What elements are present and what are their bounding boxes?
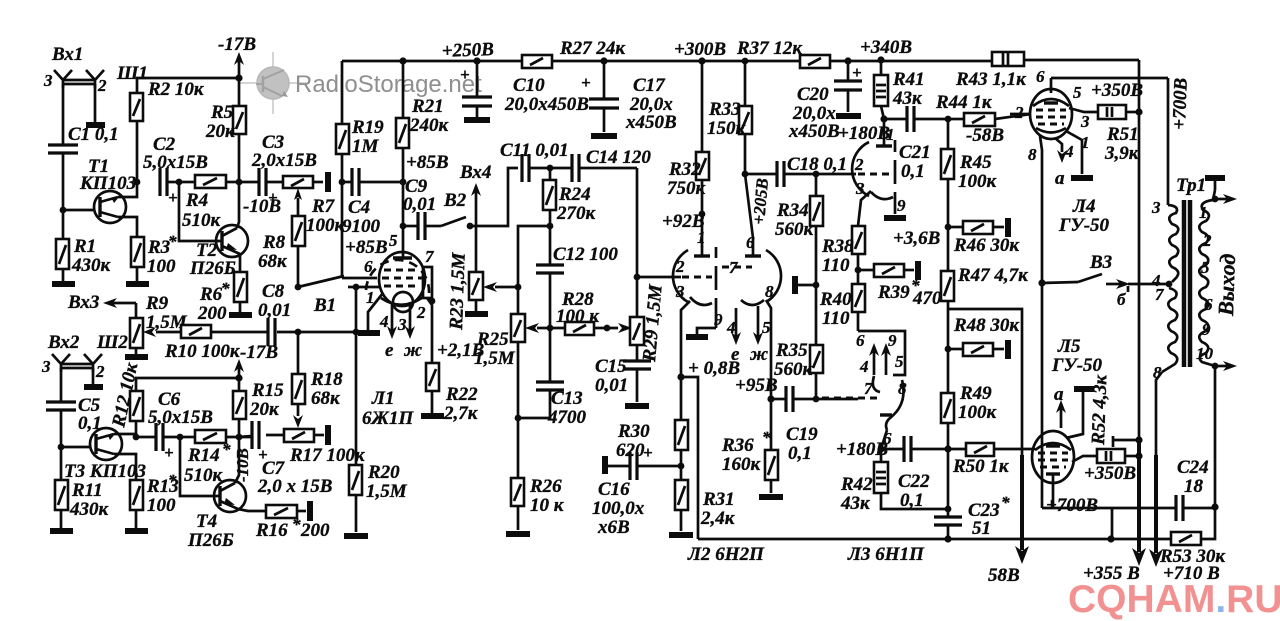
svg-text:Вх3: Вх3 — [67, 292, 99, 313]
svg-text:58В: 58В — [988, 565, 1020, 586]
svg-text:R4: R4 — [185, 190, 208, 211]
svg-text:9: 9 — [888, 331, 897, 350]
svg-text:20к: 20к — [249, 399, 280, 420]
svg-text:470: 470 — [912, 288, 942, 309]
svg-text:R51: R51 — [1106, 124, 1139, 145]
cathode 8 wire down — [766, 300, 771, 399]
wire top rail y61 — [342, 60, 522, 63]
svg-text:+: + — [164, 443, 174, 462]
svg-text:430к: 430к — [71, 255, 112, 276]
switch B1 — [298, 276, 344, 287]
cathode pin2 lead — [427, 298, 432, 363]
resistor R33 150k — [744, 61, 747, 106]
svg-text:2,0 х 15В: 2,0 х 15В — [257, 476, 332, 497]
svg-text:R41: R41 — [892, 69, 925, 90]
node +180V lower — [877, 445, 884, 452]
svg-text:х450В: х450В — [788, 121, 840, 142]
svg-text:100к: 100к — [958, 171, 998, 192]
node C16 tie — [678, 463, 685, 470]
svg-text:С14 120: С14 120 — [586, 147, 651, 168]
svg-text:3,9к: 3,9к — [1104, 143, 1140, 164]
svg-text:С16: С16 — [598, 479, 630, 500]
node +0.8V — [677, 373, 684, 380]
svg-text:430к: 430к — [69, 499, 110, 520]
node R39 tap — [855, 267, 862, 274]
svg-text:68к: 68к — [311, 388, 341, 409]
resistor R44 1k — [948, 118, 964, 121]
svg-text:R27 24к: R27 24к — [559, 38, 626, 59]
resistor R28 100k between wipers — [537, 327, 565, 330]
svg-text:1,5М: 1,5М — [474, 348, 516, 369]
svg-text:R53 30к: R53 30к — [1159, 546, 1226, 567]
wire gate to T1 — [63, 209, 94, 212]
node R2 bottom — [134, 179, 141, 186]
wire R42 bottom to x948 — [881, 493, 948, 509]
resistor R50 1k — [948, 448, 966, 451]
svg-text:R3: R3 — [147, 237, 170, 258]
dash-dot envelope — [894, 140, 897, 152]
cathode 6 lead — [880, 413, 892, 416]
svg-text:П26Б: П26Б — [189, 258, 236, 279]
svg-text:Ш1: Ш1 — [116, 63, 148, 84]
svg-text:2,4к: 2,4к — [700, 508, 736, 529]
potentiometer R9 1.5M — [135, 303, 138, 318]
svg-text:х6В: х6В — [597, 517, 630, 538]
svg-text:3: 3 — [1080, 112, 1090, 131]
resistor R10 100k — [156, 331, 181, 334]
svg-text:3: 3 — [43, 71, 53, 90]
wire 58V branch — [948, 309, 1022, 460]
svg-text:R7: R7 — [311, 196, 336, 217]
svg-text:3: 3 — [855, 179, 865, 198]
resistor R4 510k — [179, 181, 195, 184]
node R12 bottom — [133, 434, 140, 441]
node +300V — [698, 57, 705, 64]
svg-text:R36: R36 — [721, 435, 754, 456]
node pin4 — [1166, 281, 1173, 288]
node R23 wiper tie — [515, 284, 522, 291]
svg-text:а: а — [1055, 168, 1065, 189]
core bars — [1182, 200, 1187, 367]
svg-text:R24: R24 — [558, 184, 591, 205]
resistor R19 1M — [336, 124, 349, 154]
center dash-dot — [715, 247, 718, 258]
svg-text:*: * — [762, 428, 771, 447]
capacitor C17 (electrolytic to gnd) — [603, 61, 606, 99]
svg-text:0,1: 0,1 — [788, 443, 812, 464]
svg-text:3: 3 — [1151, 198, 1161, 217]
svg-text:8: 8 — [1153, 363, 1162, 382]
svg-text:8: 8 — [1028, 145, 1037, 164]
svg-text:+: + — [852, 63, 862, 82]
wire T1 source to R3 — [118, 217, 137, 237]
svg-text:С21: С21 — [899, 142, 931, 163]
svg-text:-17В: -17В — [240, 342, 278, 363]
anode wire to +700V line — [1051, 77, 1168, 80]
wire R12 top to -17V node — [136, 378, 239, 391]
svg-text:6: 6 — [1204, 295, 1213, 314]
svg-text:1: 1 — [1199, 203, 1208, 222]
svg-text:5: 5 — [895, 352, 904, 371]
svg-text:4: 4 — [379, 312, 389, 331]
node R21 top — [399, 57, 406, 64]
potentiometer R23 1.5M (rotated label) — [475, 226, 478, 272]
primary winding lower (pins 7-8) — [1162, 288, 1177, 372]
resistor R16* 200 — [266, 505, 297, 518]
capacitor C19 0.1 — [771, 398, 786, 401]
svg-text:160к: 160к — [722, 454, 762, 475]
capacitor C23* 51 — [934, 515, 962, 518]
node R15 bottom — [236, 434, 243, 441]
resistor R34 560k — [815, 174, 818, 196]
node C18/R34 — [813, 171, 820, 178]
svg-text:200: 200 — [300, 520, 330, 541]
svg-text:В3: В3 — [1089, 252, 1112, 273]
svg-text:+250В: +250В — [441, 39, 494, 62]
svg-text:R45: R45 — [959, 152, 992, 173]
svg-text:6: 6 — [1036, 67, 1045, 86]
capacitor C7 2.0x15V — [250, 421, 253, 449]
svg-text:R31: R31 — [702, 489, 735, 510]
svg-text:R32: R32 — [668, 159, 701, 180]
antenna symbol Vx1 pin2 — [86, 70, 104, 88]
svg-text:9: 9 — [1202, 320, 1211, 339]
svg-text:R1: R1 — [73, 236, 96, 257]
resistor R35 560k — [810, 345, 823, 373]
wire collector T4 — [235, 437, 239, 483]
svg-text:С1 0,1: С1 0,1 — [68, 124, 119, 145]
svg-text:2: 2 — [1014, 103, 1024, 122]
node -17V — [235, 74, 242, 81]
svg-text:5: 5 — [1201, 258, 1210, 277]
resistor R49 100k — [941, 393, 954, 423]
svg-text:Выход: Выход — [1213, 253, 1240, 317]
wire to L3 grid 2 — [816, 173, 856, 176]
node R24 bottom — [547, 223, 554, 230]
capacitor C1 0.1 — [48, 143, 78, 146]
potentiometer R29 1.5M — [630, 317, 644, 345]
svg-text:+: + — [643, 443, 653, 462]
capacitor C16 100.0x6V with terminal — [602, 456, 608, 474]
svg-text:+350В: +350В — [1084, 463, 1136, 484]
svg-text:1: 1 — [697, 228, 706, 247]
svg-text:Л3 6Н1П: Л3 6Н1П — [847, 544, 925, 565]
svg-text:8: 8 — [765, 282, 774, 301]
svg-text:С13: С13 — [551, 388, 583, 409]
wire R2 top to -17V rail — [137, 78, 239, 93]
pin8 wire down — [1040, 136, 1042, 508]
svg-text:ж: ж — [749, 344, 768, 365]
svg-text:+3,6В: +3,6В — [893, 228, 940, 249]
svg-text:43к: 43к — [892, 88, 923, 109]
svg-text:R34: R34 — [776, 200, 809, 221]
svg-text:RadioStorage.net: RadioStorage.net — [295, 71, 482, 98]
node B1 junction — [295, 284, 302, 291]
wire C5 to gate node — [60, 410, 63, 447]
svg-text:В2: В2 — [443, 190, 467, 211]
svg-text:R2 10к: R2 10к — [147, 79, 205, 100]
resistor R31 2.4k — [675, 480, 688, 510]
node R5 bottom — [236, 179, 243, 186]
wire to R25 line — [518, 226, 550, 314]
svg-text:+: + — [581, 73, 591, 92]
svg-text:R10 100к: R10 100к — [164, 341, 241, 362]
resistor R32 750k — [696, 152, 709, 180]
node R44/R45 — [945, 116, 952, 123]
node +340V — [877, 56, 884, 63]
svg-text:R50 1к: R50 1к — [952, 456, 1010, 477]
svg-text:8: 8 — [898, 379, 907, 398]
node gate T1 — [60, 207, 67, 214]
wire base T4 — [180, 437, 220, 496]
bus riser at x1112 — [1111, 508, 1114, 539]
node C11/C14/R24 — [547, 165, 554, 172]
svg-text:ж: ж — [403, 340, 422, 361]
svg-text:-10В: -10В — [243, 196, 281, 217]
svg-text:18: 18 — [1184, 476, 1204, 497]
svg-text:150к: 150к — [707, 118, 747, 139]
svg-text:R23 1,5М: R23 1,5М — [446, 251, 470, 331]
capacitor C9 0.01 — [403, 225, 418, 228]
svg-text:R33: R33 — [708, 99, 741, 120]
wire +700V row from L4 pin8 line — [1042, 507, 1112, 510]
svg-text:х450В: х450В — [625, 112, 677, 133]
node C4 left — [339, 179, 346, 186]
svg-text:*: * — [168, 471, 177, 490]
resistor R2 10k — [136, 121, 139, 182]
svg-text:R15: R15 — [251, 380, 284, 401]
node C9 branch — [400, 223, 407, 230]
svg-text:0,01: 0,01 — [258, 300, 291, 321]
svg-text:а: а — [1054, 384, 1064, 405]
svg-text:С22: С22 — [898, 471, 930, 492]
svg-text:*: * — [292, 515, 301, 534]
resistor R11 430k — [60, 447, 63, 480]
svg-text:П26Б: П26Б — [187, 530, 234, 551]
watermark RadioStorage.net logo — [240, 52, 306, 114]
svg-text:4: 4 — [859, 357, 869, 376]
svg-text:*: * — [222, 440, 231, 459]
node R48 tap — [945, 346, 952, 353]
svg-text:*: * — [1001, 493, 1010, 512]
resistor R42 43k — [880, 449, 883, 462]
svg-text:Вх1: Вх1 — [51, 44, 83, 65]
resistor R15 20k — [233, 391, 246, 419]
svg-text:9100: 9100 — [342, 216, 381, 237]
svg-text:+85В: +85В — [406, 152, 449, 173]
svg-text:2,7к: 2,7к — [443, 403, 479, 424]
svg-text:100 к: 100 к — [556, 306, 600, 327]
svg-text:510к: 510к — [182, 210, 222, 231]
svg-text:+300В: +300В — [674, 39, 726, 60]
svg-text:51: 51 — [972, 518, 991, 539]
svg-text:R38: R38 — [821, 236, 854, 257]
resistor R48 30k — [948, 348, 963, 351]
switch B3 — [1038, 279, 1045, 286]
svg-text:R19: R19 — [351, 117, 384, 138]
svg-text:Л5: Л5 — [1057, 336, 1081, 357]
node C18 tap — [742, 171, 749, 178]
svg-text:4: 4 — [726, 318, 736, 337]
resistor R26 10k — [511, 478, 524, 506]
svg-text:Л2 6Н2П: Л2 6Н2П — [687, 544, 765, 565]
resistor R52 4.3k — [1097, 449, 1125, 463]
resistor R46 30k — [948, 226, 963, 229]
svg-text:R37 12к: R37 12к — [736, 38, 803, 59]
svg-text:+95В: +95В — [735, 375, 778, 396]
svg-text:4700: 4700 — [547, 407, 587, 428]
capacitor C14 120 — [550, 167, 572, 170]
wire output down to C24 node — [1214, 366, 1217, 507]
resistor R38 110 — [852, 226, 865, 254]
svg-text:*: * — [221, 279, 230, 298]
svg-text:+340В: +340В — [860, 37, 912, 58]
svg-text:Ш2: Ш2 — [96, 332, 128, 353]
resistor R36* 160k — [770, 399, 773, 450]
wire T3 source to R13 — [114, 454, 136, 480]
wire from R10 row into C8 — [210, 331, 268, 334]
resistor R43 1.1k — [992, 52, 1024, 66]
node R46 tap — [945, 224, 952, 231]
svg-text:R5: R5 — [210, 102, 234, 123]
svg-text:С24: С24 — [1177, 457, 1209, 478]
potentiometer R17 100k — [284, 429, 314, 442]
cathode leads / ground — [1066, 131, 1082, 174]
svg-text:R40: R40 — [819, 289, 852, 310]
svg-text:С11 0,01: С11 0,01 — [500, 140, 569, 161]
svg-text:2: 2 — [416, 303, 426, 322]
wire R18 to R17 wiper — [297, 404, 300, 416]
svg-text:+700В: +700В — [1169, 77, 1192, 130]
svg-text:ГУ-50: ГУ-50 — [1058, 215, 1110, 236]
svg-text:20к: 20к — [205, 121, 236, 142]
svg-text:С8: С8 — [262, 281, 285, 302]
svg-text:2: 2 — [1202, 231, 1212, 250]
resistor R27 24k — [522, 55, 552, 68]
svg-text:R14: R14 — [187, 445, 220, 466]
antenna symbol Vx2 pin2 — [84, 354, 102, 372]
capacitor C13 4700 — [549, 328, 552, 382]
svg-text:ГУ-50: ГУ-50 — [1051, 355, 1103, 376]
wire base T2 — [179, 182, 222, 241]
sense stub — [1112, 436, 1115, 447]
wire pin2 to shield terminal — [94, 84, 97, 122]
resistor R8 68k — [292, 216, 305, 246]
svg-text:-10В: -10В — [233, 448, 252, 482]
cathode to +700V wire — [1052, 481, 1055, 508]
wire ground bus y539 — [698, 538, 1111, 541]
svg-text:0,1: 0,1 — [901, 161, 925, 182]
svg-text:В1: В1 — [313, 295, 336, 316]
svg-text:2: 2 — [95, 362, 105, 381]
node +250V — [473, 57, 480, 64]
svg-text:3: 3 — [397, 315, 407, 334]
svg-text:43к: 43к — [840, 493, 871, 514]
resistor R6* 200 — [234, 272, 247, 302]
anode lead to terminal — [1066, 392, 1083, 438]
svg-text:1,5М: 1,5М — [366, 481, 408, 502]
node C4 right / anode line — [400, 179, 407, 186]
wiper R23 from R25 line — [483, 282, 497, 292]
svg-text:R20: R20 — [367, 462, 400, 483]
svg-text:R25: R25 — [476, 329, 509, 350]
left triode — [701, 246, 704, 256]
wire stub to bus riser — [681, 377, 698, 539]
svg-text:200: 200 — [197, 303, 227, 324]
wire pin3 to C5 — [60, 368, 63, 402]
svg-text:R35: R35 — [775, 340, 808, 361]
svg-text:С4: С4 — [348, 197, 370, 218]
svg-text:10: 10 — [1196, 344, 1214, 363]
screen wire to R51 — [1069, 108, 1098, 112]
right triode — [752, 238, 755, 256]
svg-text:2: 2 — [675, 257, 685, 276]
wire T1 drain up to node — [118, 182, 137, 197]
svg-text:R30: R30 — [617, 421, 650, 442]
resistor R14* 510k — [180, 436, 195, 439]
cathode 3 to R38 — [858, 191, 871, 226]
svg-text:+180В: +180В — [838, 123, 890, 144]
svg-text:CQHAM.RU: CQHAM.RU — [1068, 578, 1280, 621]
wire pin3 down to C1 — [62, 84, 65, 145]
capacitor C18 0.1 — [775, 161, 778, 187]
svg-text:R26: R26 — [529, 476, 562, 497]
heater arrows L2 — [735, 308, 738, 336]
antenna symbol Vx2 pin3 — [52, 354, 70, 372]
svg-text:20,0х450В: 20,0х450В — [504, 94, 589, 115]
svg-text:Тр1: Тр1 — [1176, 175, 1206, 196]
wire C1 to gate node — [62, 153, 65, 210]
svg-text:R8: R8 — [262, 232, 286, 253]
svg-text:5: 5 — [389, 231, 398, 250]
svg-text:100: 100 — [147, 495, 176, 516]
resistor R53 30k — [1107, 535, 1114, 542]
wire C8 row y332 — [277, 331, 356, 334]
svg-text:10 к: 10 к — [530, 495, 565, 516]
svg-text:-17В: -17В — [218, 34, 256, 55]
svg-text:Т4: Т4 — [196, 511, 217, 532]
antenna symbol Vx1 pin3 — [54, 70, 72, 88]
output terminal bottom — [1212, 363, 1219, 370]
svg-text:1М: 1М — [352, 136, 380, 157]
resistor R13* 100 — [130, 480, 143, 510]
svg-text:560к: 560к — [775, 219, 815, 240]
potentiometer R7 100k — [283, 176, 313, 188]
capacitor C10 (electrolytic to gnd) — [476, 61, 479, 97]
capacitor C22 0.1 — [881, 448, 904, 451]
output terminal top — [1213, 190, 1215, 200]
svg-text:R18: R18 — [310, 369, 343, 390]
svg-text:3: 3 — [675, 282, 685, 301]
resistor R1 430k — [62, 210, 65, 239]
svg-text:2: 2 — [854, 155, 864, 174]
svg-text:270к: 270к — [556, 203, 597, 224]
wire +300V down to R32 — [701, 61, 704, 152]
svg-text:R43 1,1к: R43 1,1к — [955, 69, 1027, 90]
wire C14 down x637 — [636, 168, 639, 317]
svg-text:С17: С17 — [633, 75, 666, 96]
svg-text:+: + — [460, 65, 470, 84]
svg-text:100,0х: 100,0х — [592, 498, 645, 519]
resistor R21 240k — [402, 61, 405, 118]
svg-text:6: 6 — [746, 233, 755, 252]
svg-text:С12 100: С12 100 — [553, 244, 618, 265]
svg-text:С20: С20 — [797, 84, 829, 105]
svg-text:0,1: 0,1 — [900, 490, 924, 511]
svg-text:68к: 68к — [258, 251, 288, 272]
wire +700V vertical to trafo pin3 — [1167, 78, 1170, 205]
resistor R45 100k — [947, 119, 950, 149]
